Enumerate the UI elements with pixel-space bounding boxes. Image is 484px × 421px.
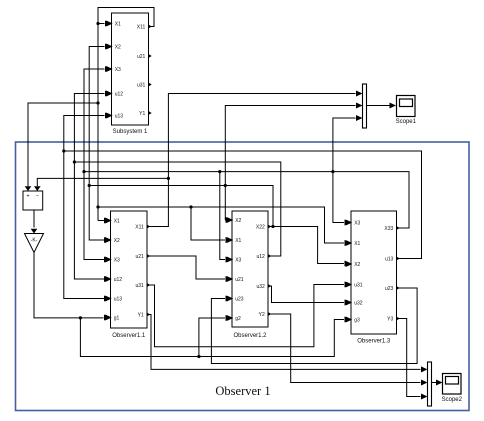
scope Scope2 — [442, 374, 463, 404]
wire net X3 riser to Mux1 input 3 — [331, 115, 362, 173]
svg-text:Y3: Y3 — [387, 316, 393, 322]
wire net g gain to Observer1.1 g1 — [34, 253, 111, 321]
svg-text:Y1: Y1 — [138, 312, 144, 318]
block Observer1.1 — [105, 211, 150, 339]
svg-text:g2: g2 — [235, 316, 241, 322]
svg-text:Y2: Y2 — [259, 312, 265, 318]
svg-text:u31: u31 — [135, 283, 144, 289]
wire net X2 drop to Observer1.1 X2 — [88, 184, 111, 243]
gain block -K- — [25, 234, 44, 253]
svg-text:X1: X1 — [235, 238, 241, 244]
block Observer1.2 — [227, 211, 272, 339]
wire net g branch to Observer1.2 g2 — [197, 315, 232, 358]
svg-text:Observer 1: Observer 1 — [215, 384, 270, 398]
svg-text:X3: X3 — [115, 67, 121, 73]
svg-text:u23: u23 — [235, 296, 244, 302]
svg-text:Scope1: Scope1 — [396, 119, 417, 125]
svg-text:X2: X2 — [235, 218, 241, 224]
svg-text:X1: X1 — [115, 21, 121, 27]
svg-text:Subsystem 1: Subsystem 1 — [113, 129, 148, 135]
wire net X3 drop to Observer1.3 X3 — [333, 172, 351, 226]
svg-text:u23: u23 — [385, 286, 394, 292]
wire net u21 Observer1.1 to Observer1.2 — [147, 256, 232, 282]
svg-text:X2: X2 — [354, 262, 360, 268]
mux Mux2 — [428, 362, 432, 406]
wire net Y3 Observer1.3 to Mux2 input 3 — [397, 319, 428, 400]
svg-text:Scope2: Scope2 — [442, 397, 463, 403]
svg-text:u21: u21 — [137, 54, 146, 60]
svg-text:g1: g1 — [114, 315, 120, 321]
svg-text:u21: u21 — [235, 277, 244, 283]
wire net u32 Observer1.2 to Observer1.3 — [268, 286, 351, 306]
svg-text:Observer1.3: Observer1.3 — [357, 339, 391, 345]
svg-text:X2: X2 — [115, 44, 121, 50]
svg-text:X22: X22 — [256, 224, 265, 230]
svg-text:X33: X33 — [384, 226, 393, 232]
wire net X1 branch to Observer1.2 X1 — [189, 205, 232, 243]
wire net X3 drop to Observer1.1 X3 — [82, 170, 110, 263]
wire Sum1 to gain — [31, 210, 38, 234]
wire net X1 into Observer1.1 X1 — [98, 218, 111, 224]
group box Observer 1 caption — [215, 384, 270, 398]
wire net X1 to Sum1 plus input — [25, 101, 100, 191]
svg-text:u13: u13 — [115, 113, 124, 119]
svg-text:X3: X3 — [354, 220, 360, 226]
mux Mux1 — [363, 84, 367, 128]
group box Observer 1 frame — [16, 142, 470, 411]
wire Mux2 to Scope2 — [432, 380, 443, 386]
svg-text:u12: u12 — [115, 91, 124, 97]
svg-text:u31: u31 — [137, 82, 146, 88]
wire net X1 into Subsystem X1 — [96, 21, 111, 27]
wire net u13 drop to Observer1.1 u13 — [62, 149, 110, 301]
svg-text:X11: X11 — [135, 224, 144, 230]
svg-text:u21: u21 — [135, 254, 144, 260]
wire net u12 to Subsystem u12 — [74, 91, 280, 257]
wire net Y2 Observer1.2 to Mux2 input 2 — [268, 314, 428, 386]
wire net u13 to Subsystem u13 — [64, 113, 422, 259]
wire net X11hat to Sum1 minus input — [34, 177, 170, 191]
svg-text:Observer1.1: Observer1.1 — [112, 333, 146, 339]
svg-text:X2: X2 — [114, 238, 120, 244]
svg-text:X3: X3 — [235, 257, 241, 263]
wire net X2 riser to Subsystem X2 — [89, 44, 274, 229]
svg-text:u32: u32 — [256, 284, 265, 290]
scope Scope1 — [396, 96, 417, 126]
svg-text:-K-: -K- — [31, 238, 38, 244]
wire Mux1 to Scope1 — [367, 103, 397, 109]
block Subsystem 1 — [106, 13, 152, 135]
wire net X3 drop to Observer1.2 X3 — [218, 170, 232, 263]
svg-text:X3: X3 — [114, 257, 120, 263]
svg-text:u13: u13 — [114, 296, 123, 302]
svg-text:u12: u12 — [256, 254, 265, 260]
wire net Y1 Observer1.1 to Mux2 input 1 — [147, 315, 428, 373]
svg-text:u31: u31 — [354, 282, 363, 288]
svg-text:Y1: Y1 — [139, 111, 145, 117]
wire net g bus to Observer1.3 g3 — [79, 316, 351, 356]
wire net u12 drop to Observer1.1 u12 — [73, 160, 111, 282]
svg-text:X11: X11 — [137, 24, 146, 30]
wire net X2 from X22 to Observer1.3 X2 — [268, 227, 351, 267]
svg-text:+: + — [26, 194, 29, 200]
wire net X2 riser to Mux1 input 2 — [224, 103, 363, 188]
wire net X2 drop to Observer1.2 X2 — [225, 186, 232, 224]
wire net X1 feedback loop — [98, 8, 154, 221]
svg-text:u12: u12 — [114, 277, 123, 283]
svg-text:u13: u13 — [385, 256, 394, 262]
wire net X11hat to Mux1 input 1 — [147, 91, 363, 227]
wire net X1 row to Observer1.3 X1 — [96, 205, 351, 246]
wire net u31 Observer1.1 to Observer1.3 — [147, 282, 351, 347]
svg-text:u32: u32 — [354, 300, 363, 306]
sum block Sum1 — [23, 191, 43, 210]
svg-text:X1: X1 — [354, 241, 360, 247]
svg-text:g3: g3 — [354, 317, 360, 323]
svg-text:−: − — [36, 194, 39, 200]
svg-text:X1: X1 — [114, 218, 120, 224]
block Observer1.3 — [346, 211, 400, 345]
wire net X3 from X33 to Subsystem X3 — [84, 66, 409, 228]
svg-text:Observer1.2: Observer1.2 — [233, 333, 267, 339]
wire net u23 Observer1.3 to Observer1.2 — [211, 288, 417, 364]
